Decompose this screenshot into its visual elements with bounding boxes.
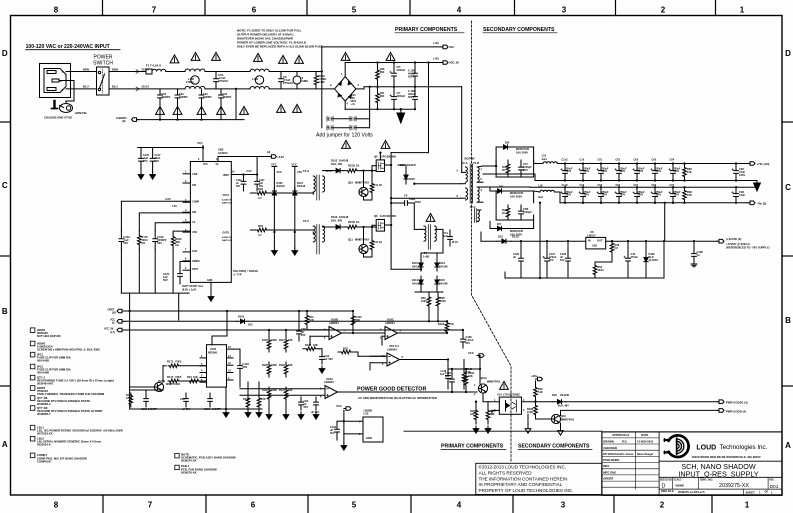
svg-text:R172: R172: [167, 375, 174, 379]
connector VDC_IN: [441, 61, 448, 65]
output cap C38 negative: [734, 187, 739, 203]
negative rail filter caps: [563, 187, 568, 203]
gate drive diode D103: [323, 226, 334, 228]
svg-text:©2012-2013 LOUD TECHNOLOGIES I: ©2012-2013 LOUD TECHNOLOGIES INC.: [479, 464, 567, 470]
warning triangles input filter bottom: [156, 106, 165, 114]
svg-text:MFG: MFG: [603, 464, 609, 468]
svg-text:Q5: Q5: [374, 155, 378, 159]
svg-text:600V: 600V: [409, 177, 415, 181]
svg-text:3uH: 3uH: [542, 157, 547, 161]
svg-text:BLU: BLU: [112, 85, 118, 89]
svg-text:1uF: 1uF: [259, 183, 264, 185]
resistor R132 10k: [305, 313, 309, 327]
svg-text:BRN: BRN: [112, 67, 118, 71]
IC pin stubs left: [183, 173, 190, 175]
svg-text:2200PF: 2200PF: [203, 96, 212, 99]
svg-text:LM2904: LM2904: [324, 380, 334, 384]
svg-text:C: C: [785, 183, 791, 192]
resistor R166: [535, 381, 537, 385]
connector -76v output: [746, 202, 748, 204]
svg-text:8: 8: [54, 6, 59, 15]
svg-text:330K: 330K: [271, 364, 277, 367]
svg-text:D18: D18: [552, 393, 557, 397]
svg-text:T2-C: T2-C: [303, 219, 309, 223]
svg-text:C65: C65: [652, 158, 657, 161]
svg-text:3: 3: [561, 501, 566, 510]
svg-text:C121: C121: [204, 407, 211, 411]
svg-text:BLK, 48V: BLK, 48V: [558, 405, 569, 408]
svg-text:R18: R18: [258, 224, 263, 228]
wire opamp1 to opamp2: [342, 332, 386, 334]
svg-text:D11D: D11D: [512, 235, 519, 239]
op-amp U16A power good: [325, 386, 338, 399]
svg-text:MMBT4403: MMBT4403: [355, 181, 369, 185]
svg-text:VCC_IN: VCC_IN: [104, 327, 113, 330]
svg-text:C1x8: C1x8: [562, 184, 569, 187]
connector +GATE output: [717, 239, 724, 243]
svg-text:Q16: Q16: [561, 414, 566, 418]
svg-text:14.000V: 14.000V: [649, 258, 659, 262]
svg-text:R18: R18: [258, 187, 263, 191]
cap C133: [153, 231, 158, 249]
snubber cell 1: [506, 160, 510, 177]
svg-text:50V: 50V: [466, 341, 471, 345]
approvals table: [658, 432, 660, 495]
resistor R104: [188, 379, 200, 383]
checklist item (PC): [30, 364, 35, 369]
svg-text:100K: 100K: [527, 410, 533, 414]
svg-text:MMBT4401: MMBT4401: [561, 418, 575, 422]
line above title block extending left: [404, 430, 602, 432]
pulldown transistor Q10: [359, 187, 368, 196]
size and drawing number row: [659, 476, 782, 478]
svg-text:BLK, 48V: BLK, 48V: [331, 162, 342, 166]
connector >5.6V: [256, 157, 258, 175]
svg-text:PRIMARY COMPONENTS: PRIMARY COMPONENTS: [395, 27, 458, 33]
svg-text:Q10: Q10: [348, 181, 354, 185]
cap C129: [119, 231, 124, 249]
svg-text:R130: R130: [262, 389, 268, 392]
svg-text:450-0408: 450-0408: [37, 359, 49, 363]
svg-text:uF 50V: uF 50V: [325, 357, 334, 361]
svg-text:VCC: VCC: [291, 163, 297, 167]
svg-text:SWITCH: SWITCH: [93, 61, 113, 67]
svg-text:C1x2: C1x2: [562, 158, 569, 161]
svg-text:(H): (H): [122, 120, 126, 123]
svg-text:D12: D12: [498, 235, 503, 239]
svg-text:OUTA: OUTA: [223, 194, 230, 197]
svg-text:2200PF: 2200PF: [162, 96, 171, 99]
svg-text:200V: 200V: [656, 170, 662, 173]
svg-text:25V: 25V: [549, 258, 554, 262]
svg-text:50V: 50V: [236, 186, 241, 188]
checklist item LBL1: [30, 425, 35, 430]
svg-text:2200PF: 2200PF: [223, 96, 232, 99]
svg-text:R128: R128: [262, 364, 268, 367]
wire -76v reference down to aux section: [539, 203, 541, 278]
svg-text:15K: 15K: [687, 193, 692, 197]
svg-text:VDC_IN: VDC_IN: [449, 61, 459, 65]
svg-text:U16B: U16B: [331, 318, 338, 322]
connector PWR GOOD: [717, 409, 724, 413]
resistor R33: [338, 350, 354, 354]
checklist item QTY 4/8: [30, 406, 35, 411]
svg-text:50V: 50V: [163, 278, 168, 282]
svg-text:DIS: DIS: [192, 212, 196, 214]
svg-text:GCK: GCK: [192, 251, 197, 253]
divider column R126: [267, 337, 271, 352]
cap C104: [335, 421, 340, 440]
+26v stub: [536, 377, 543, 381]
half bridge switching node: [390, 153, 392, 270]
svg-text:5: 5: [352, 501, 357, 510]
svg-text:68K: 68K: [380, 95, 385, 98]
svg-text:CHASSIS GND STUD: CHASSIS GND STUD: [44, 116, 72, 120]
HV bus down to half bridge corner: [427, 61, 429, 63]
svg-text:43K: 43K: [288, 389, 293, 392]
svg-text:B: B: [785, 316, 791, 325]
svg-text:275VAC: 275VAC: [283, 81, 293, 85]
svg-text:50V: 50V: [445, 374, 450, 378]
Q16 collector to PWR GOOD wire: [560, 410, 562, 415]
svg-text:[+B]: [+B]: [434, 58, 439, 61]
svg-text:47K5: 47K5: [126, 397, 132, 400]
svg-text:VCC: VCC: [203, 164, 208, 166]
svg-text:C20: C20: [180, 397, 185, 401]
svg-text:2.0MH: 2.0MH: [300, 79, 308, 83]
svg-text:50V: 50V: [330, 431, 335, 435]
svg-text:1N4148: 1N4148: [412, 282, 421, 285]
svg-text:330K: 330K: [271, 389, 277, 392]
svg-text:2039276-XX: 2039276-XX: [181, 471, 197, 475]
svg-text:OF: OF: [765, 490, 769, 494]
svg-text:C62: C62: [616, 158, 621, 161]
resistor R132h: [303, 347, 319, 351]
svg-text:2200PF: 2200PF: [179, 96, 188, 99]
gate supply cap C136: [693, 241, 695, 248]
U100 supervisor IC: [207, 345, 227, 387]
svg-text:D: D: [2, 49, 8, 58]
wire bridge AC2 to doubler mid rail: [356, 88, 364, 90]
regulator output wire to +GATE: [606, 240, 717, 242]
rectifier diode D17: [490, 228, 498, 230]
R165 R167 pulldowns: [474, 406, 478, 424]
svg-text:4: 4: [457, 6, 462, 15]
checklist item QTY 4/8: [30, 396, 35, 401]
svg-text:T2-B: T2-B: [473, 161, 479, 165]
svg-text:BCP9W: BCP9W: [465, 157, 475, 161]
cap C142 at U100: [239, 349, 241, 360]
svg-text:Nana Zweger: Nana Zweger: [637, 452, 653, 456]
svg-text:C67: C67: [634, 184, 639, 187]
bleeder resistor R68 negative: [683, 187, 687, 203]
bus wire UREF: [124, 310, 353, 312]
svg-text:U16 1/4: U16 1/4: [389, 344, 399, 348]
svg-text:-76v (3): -76v (3): [757, 202, 767, 206]
svg-text:R10: R10: [187, 375, 192, 379]
svg-text:16A 200V: 16A 200V: [510, 194, 522, 198]
svg-text:[I,J]: [I,J]: [110, 331, 115, 334]
wire switch to fuse: [109, 71, 146, 73]
left frame vertical: [129, 311, 131, 409]
warning triangle aux transformer: [426, 213, 435, 221]
wire inlet E pin to chassis stud: [59, 81, 74, 104]
compensation network wires: [121, 201, 190, 231]
svg-text:K-PC/2N5686: K-PC/2N5686: [380, 214, 396, 218]
svg-text:R11 1K: R11 1K: [374, 183, 383, 187]
svg-text:2CH-2: 2CH-2: [142, 85, 150, 89]
svg-text:C3: C3: [615, 246, 619, 250]
inductor L104: [293, 76, 301, 84]
cap C120: [184, 393, 189, 407]
svg-text:43K: 43K: [468, 374, 473, 378]
svg-text:600V: 600V: [415, 200, 421, 204]
connector VAC: [441, 45, 448, 49]
wire OUTA gate drive: [250, 192, 256, 194]
svg-text:2039275-xx-D01.sch: 2039275-xx-D01.sch: [678, 490, 705, 494]
opto emitter arrow: [527, 414, 529, 426]
cap C121: [208, 393, 213, 407]
svg-text:1K: 1K: [356, 164, 359, 168]
svg-text:1K24: 1K24: [598, 268, 605, 272]
gate drive diode D102: [323, 170, 334, 172]
aux filter cap C125s: [519, 241, 524, 278]
svg-text:1+0B: 1+0B: [423, 255, 429, 259]
svg-text:D/8: D/8: [505, 141, 510, 145]
svg-text:100V: 100V: [739, 173, 745, 177]
title block outline: [602, 432, 782, 495]
svg-text:REV.: REV.: [769, 479, 774, 481]
wire opamp3 output network: [400, 359, 449, 361]
svg-text:14-NOV-2012: 14-NOV-2012: [637, 440, 654, 444]
secondary return rails: [483, 173, 535, 175]
svg-text:LM2904: LM2904: [387, 348, 397, 352]
svg-text:47K5: 47K5: [175, 360, 182, 364]
primary ground arrow: [400, 109, 402, 113]
RC C116 R164: [448, 368, 480, 370]
svg-text:5: 5: [352, 6, 357, 15]
diode D108: [553, 401, 558, 403]
op-amp U16B: [329, 327, 342, 340]
svg-text:R.D.: R.D.: [622, 440, 628, 444]
svg-text:BRN: BRN: [83, 67, 89, 71]
wires from upper section into bus area: [178, 293, 180, 311]
svg-text:1u: 1u: [697, 253, 700, 257]
svg-text:56V: 56V: [243, 365, 248, 369]
wire N inlet to switch: [66, 88, 97, 90]
svg-text:U16C: U16C: [387, 318, 394, 322]
bridge rectifier BR1: [335, 77, 356, 101]
svg-text:GND: GND: [366, 436, 372, 440]
resistor R106: [314, 72, 318, 89]
wire bridge negative to ground rail: [344, 101, 346, 109]
checklist item QTY 2: [30, 375, 35, 380]
divider column R127: [284, 337, 288, 352]
common mode choke L102: [185, 69, 205, 72]
svg-text:VCC: VCC: [277, 170, 283, 174]
svg-text:1000pF: 1000pF: [523, 210, 532, 214]
svg-text:R131: R131: [279, 389, 285, 392]
chassis rail: [137, 119, 244, 121]
gate transformer T2B: [313, 226, 315, 242]
svg-text:ALL RIGHTS RESERVED: ALL RIGHTS RESERVED: [479, 470, 533, 475]
output cap C36 positive: [734, 164, 739, 181]
wire doubler mid rail to transformer pin 2: [461, 87, 463, 173]
svg-text:C: C: [2, 181, 8, 190]
svg-text:8: 8: [54, 501, 59, 510]
power good output wire: [338, 391, 478, 393]
svg-text:M:(?): M:(?): [452, 241, 458, 244]
svg-text:47K5: 47K5: [175, 375, 182, 379]
svg-text:16A 200V: 16A 200V: [516, 150, 528, 154]
zone ticks bottom: [102, 495, 104, 513]
svg-text:1: 1: [745, 501, 750, 510]
svg-text:5027503-XX: 5027503-XX: [37, 432, 53, 436]
aux load resistors R30 R36: [427, 294, 431, 309]
svg-text:VCC: VCC: [336, 404, 342, 408]
bulk cap C106: [413, 87, 418, 109]
svg-text:16220 WOOD-RED RD NE WOODINVIL: 16220 WOOD-RED RD NE WOODINVILLE, WA 980…: [692, 455, 761, 459]
svg-text:U14: U14: [497, 393, 502, 397]
svg-text:SHEET: SHEET: [746, 490, 756, 494]
svg-text:1: 1: [740, 6, 745, 15]
svg-text:200V: 200V: [584, 194, 590, 197]
svg-text:PUBLISHED: PUBLISHED: [603, 458, 619, 462]
svg-text:10K: 10K: [309, 318, 314, 322]
checklist item HDW5: [30, 386, 35, 391]
svg-text:MFG ENG: MFG ENG: [603, 470, 616, 474]
svg-text:L103: L103: [252, 77, 259, 81]
svg-text:A-845 ON: A-845 ON: [222, 199, 232, 202]
svg-text:4: 4: [457, 501, 462, 510]
svg-text:50V: 50V: [123, 241, 128, 245]
bus wire VCC_IN: [124, 329, 463, 331]
checklist item LBL2: [30, 436, 35, 441]
auxiliary transformer T4: [424, 226, 426, 241]
svg-text:(H): (H): [267, 151, 271, 154]
svg-text:RFMIN: RFMIN: [192, 261, 200, 263]
VREF pin network: [231, 174, 257, 176]
wire VAC tap and jumper feed: [321, 47, 323, 128]
svg-text:+76v (1/4): +76v (1/4): [757, 162, 770, 166]
svg-text:200V: 200V: [674, 194, 680, 197]
svg-text:Q6: Q6: [374, 214, 378, 218]
svg-text:1000PF: 1000PF: [148, 407, 157, 411]
svg-text:VCC: VCC: [468, 351, 474, 355]
svg-text:200V: 200V: [674, 170, 680, 173]
svg-text:200V: 200V: [566, 170, 572, 173]
svg-text:200V: 200V: [584, 170, 590, 173]
wire -76v rail down to gate supply: [664, 203, 666, 241]
svg-text:Q11: Q11: [348, 238, 353, 242]
resistor R123 to VCC bus: [445, 321, 449, 333]
svg-text:OUT: OUT: [597, 239, 603, 243]
svg-text:1000PF: 1000PF: [212, 407, 221, 411]
svg-text:55C: 55C: [248, 323, 253, 327]
svg-text:1N4148: 1N4148: [439, 282, 448, 285]
RC on Q103 emitter: [129, 393, 133, 407]
svg-text:THE INFORMATION CONTAINED HERE: THE INFORMATION CONTAINED HEREIN: [479, 476, 568, 481]
doubler jumper leg right: [369, 87, 371, 128]
svg-text:PRIMARY COMPONENTS: PRIMARY COMPONENTS: [441, 444, 504, 450]
svg-text:1%: 1%: [141, 241, 145, 245]
zone ticks right: [782, 121, 793, 123]
snubber cell 2: [506, 205, 510, 220]
VCC stub LM285: [344, 407, 351, 411]
svg-text:1N4007: 1N4007: [407, 163, 417, 167]
wire bus to U100: [178, 311, 180, 320]
svg-text:uF: uF: [513, 255, 517, 259]
transistor Q15: [478, 384, 487, 393]
svg-text:100-120 VAC or 220-240VAC INPU: 100-120 VAC or 220-240VAC INPUT: [26, 44, 111, 50]
bus wire VCC: [124, 320, 237, 322]
MOSFET Q5: [376, 160, 384, 172]
primary winding wires: [414, 183, 460, 185]
svg-text:43K: 43K: [288, 364, 293, 367]
svg-text:A-845 ON: A-845 ON: [222, 236, 232, 239]
aux rectifier wires: [420, 253, 422, 259]
svg-text:BAS16: BAS16: [297, 184, 306, 188]
output cap C45: [626, 241, 631, 278]
svg-text:MMBT4401: MMBT4401: [487, 380, 501, 384]
svg-text:MMBT4403: MMBT4403: [355, 238, 369, 242]
aux rectifier diodes D112 D113: [420, 259, 422, 263]
svg-text:+17VDC @ 200mA: +17VDC @ 200mA: [726, 242, 750, 246]
cap C7 X-cap: [279, 72, 284, 89]
resistor R158: [246, 396, 250, 409]
resonant cap C141: [448, 230, 453, 246]
svg-text:200V: 200V: [656, 194, 662, 197]
bleeder R28: [376, 63, 380, 87]
svg-text:DWG FILE:: DWG FILE:: [661, 489, 674, 493]
svg-text:D: D: [785, 49, 791, 58]
svg-text:50V: 50V: [560, 258, 565, 262]
svg-text:LM2904: LM2904: [385, 321, 395, 325]
svg-text:BAV5 16V: BAV5 16V: [222, 202, 233, 205]
svg-text:R158: R158: [243, 398, 249, 401]
svg-text:R129: R129: [279, 364, 285, 367]
warning triangles bridge area: [341, 52, 350, 60]
svg-text:DIS: DIS: [192, 185, 196, 187]
svg-text:DRAWN: DRAWN: [603, 440, 614, 444]
chassis ground stud: [53, 101, 55, 108]
checklist item (PC): [30, 352, 35, 357]
svg-text:R171: R171: [167, 360, 174, 364]
svg-text:AC LINE MONITOR/PULSE 60mS AFT: AC LINE MONITOR/PULSE 60mS AFTER AC INTE…: [358, 396, 437, 400]
svg-text:200V: 200V: [566, 194, 572, 197]
svg-text:Q103: Q103: [158, 379, 165, 383]
cap C46: [298, 311, 300, 324]
LOUD Technologies logo: [667, 435, 689, 457]
svg-text:75K: 75K: [449, 322, 454, 326]
svg-text:RFST: RFST: [192, 269, 199, 271]
transistor Q103: [154, 382, 163, 391]
svg-text:2039270-XX: 2039270-XX: [181, 459, 197, 463]
svg-text:2030858-7: 2030858-7: [37, 412, 51, 416]
svg-text:T2-A: T2-A: [462, 161, 468, 165]
svg-text:C18: C18: [580, 184, 585, 187]
svg-text:1N4148: 1N4148: [560, 393, 570, 397]
svg-text:NUT HEX KEP M3: NUT HEX KEP M3: [37, 334, 61, 338]
bulk cap C15: [392, 63, 397, 87]
svg-text:ADJ: ADJ: [592, 244, 598, 248]
svg-text:K-PC/2N5686: K-PC/2N5686: [380, 155, 396, 159]
cap C24: [299, 397, 304, 410]
svg-text:10K: 10K: [193, 375, 198, 379]
svg-text:5023054-6: 5023054-6: [37, 443, 51, 447]
cap C108: [462, 330, 464, 333]
checklist item HDW3: [30, 341, 35, 346]
